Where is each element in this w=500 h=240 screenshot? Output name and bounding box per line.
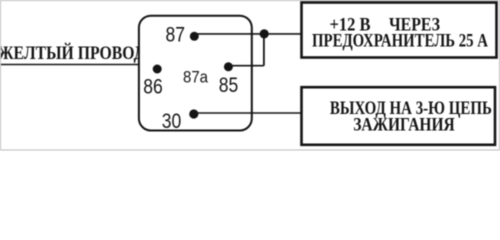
junction node on 87 wire (260, 29, 269, 38)
wire junction to pin 85 horizontal (228, 65, 264, 67)
svg-text:86: 86 (143, 76, 163, 99)
wire junction to pin 85 vertical (263, 34, 265, 66)
relay K1 body (139, 16, 252, 131)
svg-text:ПРЕДОХРАНИТЕЛЬ 25 А: ПРЕДОХРАНИТЕЛЬ 25 А (312, 30, 488, 51)
box +12V through fuse (302, 3, 497, 58)
pin 30 contact dot (189, 109, 198, 118)
svg-text:30: 30 (162, 110, 182, 133)
wire pin 87 to fuse box (194, 33, 300, 35)
wire yellow-wire to pin 86 (0, 64, 157, 66)
svg-text:ЖЕЛТЫЙ ПРОВОД: ЖЕЛТЫЙ ПРОВОД (0, 42, 145, 64)
svg-text:ЗАЖИГАНИЯ: ЗАЖИГАНИЯ (353, 114, 455, 135)
svg-text:87a: 87a (183, 67, 208, 86)
pin 87 contact dot (190, 32, 199, 41)
wire pin 30 to ignition box (194, 112, 301, 114)
svg-text:87: 87 (166, 23, 186, 46)
pin 86 contact dot (153, 65, 162, 74)
box ignition circuit output (302, 87, 496, 145)
frame border of image (1, 1, 500, 151)
pin 85 contact dot (224, 62, 233, 71)
svg-text:85: 85 (219, 74, 239, 97)
